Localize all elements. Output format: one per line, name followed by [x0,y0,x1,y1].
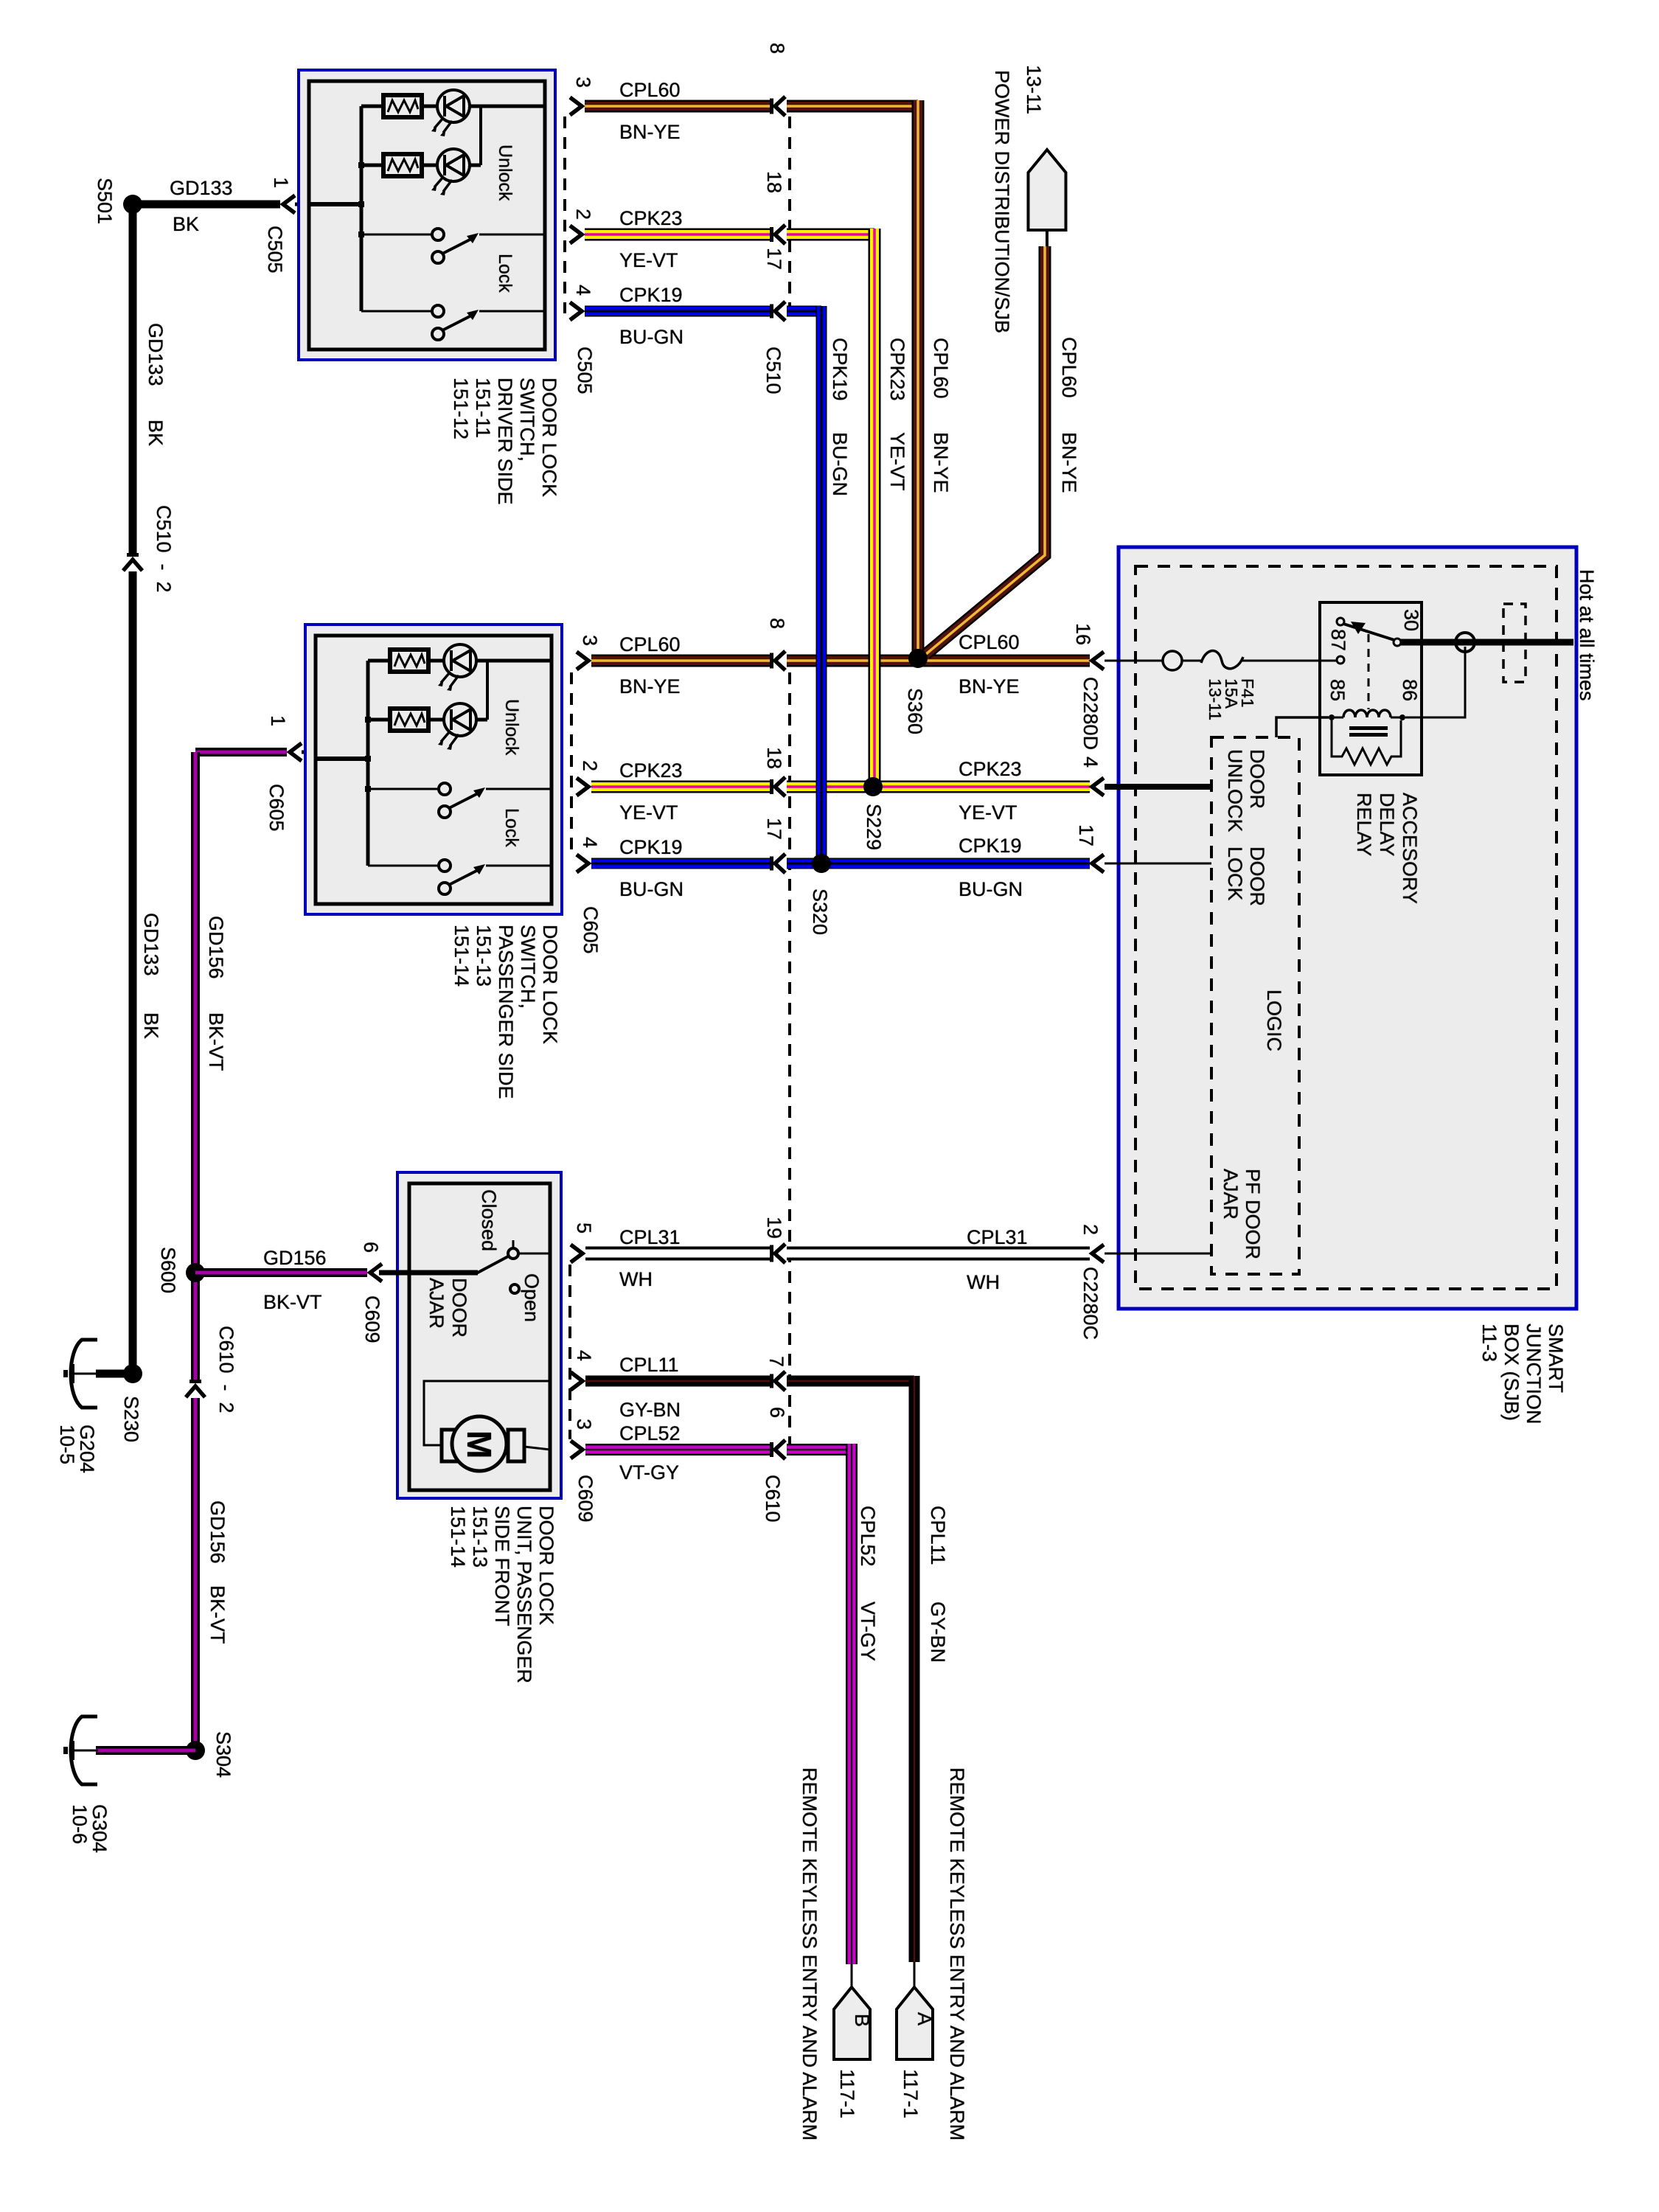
svg-text:CPL52: CPL52 [619,1422,681,1444]
svg-text:CPL31: CPL31 [967,1226,1028,1248]
svg-text:C610 - 2: C610 - 2 [215,1326,237,1413]
in-line connector C610-2 on GD156 [186,1326,237,1413]
label SMART JUNCTION BOX (SJB) 11-3 [1478,1324,1567,1425]
door lock switch passenger side: box enclosure [305,625,562,914]
pin 1 arrow (driver switch) [283,195,295,213]
svg-text:S320: S320 [809,888,831,935]
door lock switch driver side: lock switch [361,305,545,340]
in-line connector pin 18 (driver C510) [763,171,785,244]
svg-text:DOORAJAR: DOORAJAR [425,1278,470,1338]
svg-text:BN-YE: BN-YE [930,432,952,493]
wire GD156 BK-VT vertical (pin1 to S304) [191,752,200,1750]
connector C605 dashed line (passenger switch) [571,672,602,954]
relay coil [1329,710,1405,737]
label GD156 BK-VT (upper vertical) [205,916,227,1071]
connector C609 dashed line (door lock unit) [570,1265,597,1523]
wire GD133 BK vertical (S501 to S230) [129,204,137,1374]
svg-text:BK-VT: BK-VT [205,1012,227,1071]
svg-text:30: 30 [1400,609,1422,631]
svg-text:C510 - 2: C510 - 2 [153,505,175,593]
wire CPL52 VT-GY vertical drop [846,1444,858,1964]
svg-text:Unlock: Unlock [495,145,515,201]
door ajar switch (closed/open) [379,1240,550,1293]
connector B 117-1 (remote keyless entry and alarm) [834,1964,873,2118]
relay switch contacts 30/87 [1337,618,1401,664]
in-line connector pin 6 (C610) [766,1407,788,1459]
svg-text:POWER DISTRIBUTION/SJB: POWER DISTRIBUTION/SJB [991,70,1013,333]
svg-text:CPL11: CPL11 [619,1354,679,1376]
label GD156 BK-VT (lower vertical) [206,1500,229,1644]
svg-text:CPK23: CPK23 [619,759,683,782]
svg-text:GD156: GD156 [205,916,227,979]
svg-text:CPK19: CPK19 [619,284,683,306]
motor M (door lock unit) [442,1416,524,1471]
labels along vertical wires CPK19 CPK23 CPL60 [829,338,952,496]
svg-text:1: 1 [267,715,289,726]
pin 3 arrow + label (passenger switch) [577,635,601,669]
svg-text:CPL60: CPL60 [619,633,681,655]
svg-text:18: 18 [763,747,785,769]
svg-text:BK: BK [140,1012,162,1039]
svg-text:Open: Open [521,1273,543,1322]
SJB pin 17 arrow (door lock feed) [1075,824,1104,872]
wire GD133 BK from S501 to driver door lock switch pin 1 [133,201,361,209]
svg-text:VT-GY: VT-GY [619,1461,679,1484]
label CPL52 VT-GY (row) [619,1422,681,1484]
label CPK23 YE-VT (passenger row left) [619,759,683,824]
door lock switch passenger side: Unlock / Lock labels [501,699,522,847]
svg-text:CPL60: CPL60 [1058,337,1080,398]
junction S229 [863,777,885,850]
pin 4 arrow + label (door lock unit) [571,1350,595,1390]
label REMOTE KEYLESS ENTRY AND ALARM (A) [946,1767,968,2140]
svg-text:C505: C505 [574,347,596,394]
svg-text:C2280D: C2280D [1079,677,1102,750]
door lock switch passenger side: resistor 2 [390,709,428,731]
svg-text:BU-GN: BU-GN [829,432,851,496]
label G304 10-6 [69,1804,111,1853]
labels Closed / Open / DOOR AJAR [425,1189,543,1338]
label pin 1 and C605 (passenger pin1) [265,715,289,832]
label CPK19 BU-GN (row right of S320) [959,835,1023,900]
SJB pin 4 arrow (door unlock feed) [1079,757,1104,796]
label GD133 BK (lower vertical) [140,913,162,1039]
in-line connector pin 8 (passenger C610) [766,618,788,670]
svg-text:S304: S304 [212,1731,234,1778]
svg-text:REMOTE KEYLESS ENTRY AND ALARM: REMOTE KEYLESS ENTRY AND ALARM [799,1767,821,2140]
junction S600 [157,1247,205,1293]
wire relay 85 to logic [1276,717,1329,737]
svg-text:GD156: GD156 [206,1500,229,1564]
svg-text:C505: C505 [264,226,286,274]
svg-text:19: 19 [763,1217,785,1239]
smart junction box (SJB) enclosure [1119,547,1576,1309]
svg-text:YE-VT: YE-VT [619,249,678,271]
svg-text:BU-GN: BU-GN [619,878,684,900]
pin 3 arrow + label (driver switch) [570,77,594,115]
door lock switch driver side: resistor 1 [383,95,422,117]
label CPK23 YE-VT (driver row) [619,207,683,271]
svg-text:CPL60: CPL60 [959,631,1020,653]
svg-text:4: 4 [579,837,601,848]
in-line connector pin 8 (driver C510) [766,43,788,116]
svg-text:8: 8 [766,43,788,54]
labels along vertical CPL52 / CPL11 [857,1506,949,1663]
svg-text:Closed: Closed [478,1189,500,1251]
svg-text:GD133: GD133 [140,913,162,976]
label F41 15A 13-11 [1206,678,1257,720]
svg-text:S600: S600 [157,1247,179,1293]
wire stub S304 to ground [96,1746,195,1755]
svg-text:YE-VT: YE-VT [959,801,1018,824]
svg-text:117-1: 117-1 [836,2069,858,2118]
svg-text:18: 18 [763,171,785,193]
wire CPL60 BN-YE passenger run (pin3 to S360 to SJB pin16) [591,655,1090,667]
svg-text:BN-YE: BN-YE [1058,432,1080,493]
pin 2 arrow + label (passenger switch) [577,760,601,796]
relay dashed actuator line [1368,634,1370,709]
SJB internal fusible link (dashed rect) [1503,604,1526,682]
label pin 1 and C505 (driver switch pin1) [264,177,292,274]
svg-text:C605: C605 [580,906,602,954]
connector A 117-1 (remote keyless entry and alarm) [897,1962,936,2118]
svg-text:GY-BN: GY-BN [619,1399,681,1421]
SJB pin 2 arrow + labels (C2280C) [1079,1224,1104,1340]
fuse F41 15A circle + element [1105,651,1337,670]
svg-text:85: 85 [1326,679,1349,701]
wire GD156 BK-VT from S600 to door lock unit pin 6 [195,1268,367,1277]
svg-text:WH: WH [619,1268,653,1290]
connector C505 dashed line (driver switch) [565,116,596,394]
svg-text:C610: C610 [762,1475,784,1523]
svg-text:C609: C609 [574,1475,597,1523]
svg-text:BU-GN: BU-GN [959,878,1023,900]
svg-text:CPK23: CPK23 [886,338,908,401]
wire CPL11 GY-BN (unit pin4 to corner to connector A) [585,1376,914,1387]
svg-text:6: 6 [766,1407,788,1418]
svg-text:2: 2 [579,760,601,771]
label CPL60 BN-YE (driver row) [619,79,681,143]
accessory delay relay box [1320,602,1422,775]
svg-text:GD133: GD133 [170,177,233,199]
svg-text:117-1: 117-1 [900,2069,922,2118]
svg-text:S501: S501 [94,178,116,224]
wire CPL60 BN-YE driver run (pin3 to corner) [585,100,918,113]
label CPK19 BU-GN (driver row) [619,284,684,348]
label ACCESORY DELAY RELAY [1353,793,1421,904]
svg-text:CPL60: CPL60 [930,338,952,399]
junction S304 [186,1731,234,1778]
label REMOTE KEYLESS ENTRY AND ALARM (B) [799,1767,821,2140]
svg-text:Hot at all times: Hot at all times [1576,569,1598,701]
svg-text:Unlock: Unlock [501,699,522,756]
pin 2 arrow + label (driver switch) [570,209,594,243]
label CPL60 BN-YE (power distribution drop) [1058,337,1080,493]
svg-text:BK-VT: BK-VT [206,1585,229,1644]
wire CPK23 YE-VT vertical (driver to S229) [869,229,881,783]
door lock unit passenger side front: box enclosure [397,1172,561,1498]
svg-text:17: 17 [763,818,785,840]
wire CPL60 BN-YE from power distribution down and diagonal to S360 [926,246,1045,654]
pin 1 arrow (passenger switch) [290,743,302,761]
svg-text:CPL31: CPL31 [619,1226,681,1248]
pin 6 arrow (door lock unit) [370,1264,382,1281]
door lock switch passenger side: LED indicator 2 [438,703,476,750]
label 13-11 POWER DISTRIBUTION/SJB [991,65,1045,333]
label CPK19 BU-GN (passenger row left) [619,836,684,900]
wire CPK19 BU-GN driver run (pin4 to corner) [585,306,821,317]
label CPL60 BN-YE (row right of S360) [959,631,1020,698]
relay pin labels 30 87 85 86 [1326,609,1422,701]
svg-text:C510: C510 [762,347,785,394]
svg-text:8: 8 [766,618,788,629]
junction S320 [809,854,831,935]
door lock switch passenger side: lock switch [368,860,552,894]
svg-text:CPK19: CPK19 [829,338,851,401]
svg-text:4: 4 [572,285,594,296]
SJB pin 16 arrow + labels (C2280D) [1072,623,1104,750]
svg-text:WH: WH [967,1271,1000,1293]
svg-text:6: 6 [360,1242,382,1253]
door lock switch driver side: unlock switch [361,229,545,263]
wire CPL11 GY-BN vertical drop [909,1376,920,1962]
svg-text:LOGIC: LOGIC [1263,990,1285,1051]
door lock switch passenger side: unlock switch [368,783,552,818]
relay resistor (zigzag) [1332,720,1401,765]
svg-text:BN-YE: BN-YE [619,121,681,143]
svg-text:C2280C: C2280C [1079,1267,1102,1340]
SJB outer dashed boundary [1135,566,1557,1289]
in-line connector pin 19 (C610) [763,1217,785,1263]
connector POWER DISTRIBUTION/SJB 13-11 (pentagon) [1029,150,1066,248]
door lock switch passenger side: internal wires [316,661,552,866]
label DOOR LOCK SWITCH PASSENGER SIDE [451,925,561,1099]
svg-text:3: 3 [579,635,601,646]
junction S501 [94,178,142,224]
junction S230 [120,1364,142,1442]
svg-text:CPL52: CPL52 [857,1506,879,1567]
junction S360 [904,649,928,734]
in-line connector pin 17 (passenger C610) [763,818,785,873]
svg-text:CPK23: CPK23 [619,207,683,229]
svg-text:86: 86 [1399,679,1421,701]
connector C510 dashed line (driver rows) [762,116,790,394]
svg-text:Lock: Lock [501,808,522,847]
svg-text:YE-VT: YE-VT [886,432,908,491]
door lock switch driver side: LED indicator 1 [431,90,470,136]
label CPK23 YE-VT (row right of S229) [959,758,1022,824]
svg-text:BK: BK [145,420,167,446]
label CPL11 GY-BN (row) [619,1354,681,1421]
svg-text:BN-YE: BN-YE [959,675,1020,698]
SJB logic dashed box [1211,737,1299,1274]
label CPL31 WH (right) [967,1226,1028,1293]
in-line connector C510-2 on GD133 [123,505,175,593]
svg-text:M: M [460,1430,498,1458]
door lock switch driver side: box enclosure [299,70,555,360]
svg-text:DOORLOCK: DOORLOCK [1224,846,1268,906]
svg-text:CPL60: CPL60 [619,79,681,101]
svg-text:CPK19: CPK19 [959,835,1022,857]
svg-text:1: 1 [270,177,292,188]
svg-text:2: 2 [1079,1224,1102,1235]
pin 4 arrow + label (passenger switch) [577,837,601,872]
svg-text:4: 4 [1079,757,1102,768]
door lock switch driver side: LED indicator 2 [431,149,470,195]
hot at all times bus (thick) + junction ring [1401,633,1573,652]
svg-text:5: 5 [573,1222,595,1234]
svg-text:16: 16 [1072,623,1094,645]
label pin 6 and C609 (unit pin6) [360,1242,383,1343]
wire CPL31 WH (unit pin5 to SJB pin2) [585,1247,1090,1261]
svg-text:BU-GN: BU-GN [619,326,684,348]
wire stub S230 to ground [96,1370,133,1378]
svg-text:REMOTE KEYLESS ENTRY AND ALARM: REMOTE KEYLESS ENTRY AND ALARM [946,1767,968,2140]
svg-text:2: 2 [572,209,594,220]
wire CPK19 BU-GN passenger run (pin4 to S320 to SJB pin17) [591,858,1090,869]
svg-text:Lock: Lock [495,254,515,293]
svg-text:3: 3 [572,77,594,88]
svg-text:3: 3 [573,1419,595,1430]
door lock switch driver side: resistor 2 [383,154,422,176]
svg-text:17: 17 [1075,824,1097,846]
label G204 10-5 [56,1425,98,1473]
svg-text:CPK23: CPK23 [959,758,1022,780]
label DOOR LOCK SWITCH DRIVER SIDE [450,378,560,505]
svg-text:C605: C605 [265,784,288,832]
pin 4 arrow + label (driver switch) [570,285,594,320]
svg-text:CPK19: CPK19 [619,836,683,858]
svg-text:7: 7 [765,1356,787,1367]
connector C610 dashed line (passenger + unit rows) [762,672,790,1523]
wire CPK19 BU-GN vertical (driver to S320) [816,306,827,859]
svg-text:S360: S360 [904,688,926,734]
svg-text:B: B [851,2014,873,2027]
motor internal wires [424,1381,550,1450]
ground G304 symbol [63,1717,98,1784]
door lock switch passenger side: resistor 1 [390,650,428,672]
svg-text:BN-YE: BN-YE [619,675,681,698]
svg-text:4: 4 [573,1350,595,1361]
wire CPK23 YE-VT passenger run (pin2 to S229 to SJB pin4) [591,781,1090,793]
label Hot at all times [1576,569,1598,701]
svg-text:13-11: 13-11 [1023,65,1045,114]
wire relay 86 to hot bus [1405,647,1465,717]
svg-text:A: A [914,2012,936,2025]
svg-text:BK-VT: BK-VT [263,1291,322,1313]
label DOOR LOCK UNIT PASSENGER SIDE FRONT [447,1506,557,1683]
svg-text:S229: S229 [863,804,885,850]
pin 3 arrow + label (door lock unit) [571,1419,595,1458]
label CPL60 BN-YE (passenger row left) [619,633,681,698]
label CPL31 WH (left) [619,1226,681,1290]
svg-text:GY-BN: GY-BN [927,1601,949,1663]
svg-text:CPL11: CPL11 [927,1506,949,1565]
svg-text:87: 87 [1327,629,1349,651]
svg-text:C609: C609 [361,1295,383,1343]
labels DOOR UNLOCK / DOOR LOCK / LOGIC / PF DOOR AJAR [1220,749,1285,1259]
label GD133 BK (S501 row) [170,177,233,235]
svg-text:GD133: GD133 [145,323,167,386]
wire door lock feed [1105,863,1211,865]
label GD156 BK-VT (S600 row) [263,1247,327,1313]
svg-text:GD156: GD156 [263,1247,327,1269]
label GD133 BK (upper vertical) [145,323,167,446]
in-line connector pin 7 (C610) [765,1356,787,1391]
svg-text:17: 17 [763,248,785,270]
svg-text:VT-GY: VT-GY [857,1601,879,1661]
svg-text:S230: S230 [120,1396,142,1442]
ground G204 symbol [63,1340,98,1408]
door lock switch driver side: internal wires [309,106,545,311]
svg-text:BK: BK [173,213,199,235]
wire GD156 BK-VT from vertical to passenger switch pin 1 [195,748,369,757]
wire CPK23 YE-VT driver run (pin2 to corner) [585,229,874,241]
door lock switch driver side: Unlock / Lock labels [495,145,515,293]
wire door unlock feed (thick) [1105,784,1211,790]
in-line connector pin 17 (driver C510) [763,248,785,321]
pin 5 arrow + label (door lock unit) [571,1222,595,1262]
wire PF door ajar feed [1105,1253,1211,1255]
in-line connector pin 18 (passenger C610) [763,747,785,796]
wire CPL60 BN-YE vertical (driver to S360) [912,100,925,655]
wire CPL52 VT-GY (unit pin3 to corner to connector B) [585,1444,852,1455]
svg-text:YE-VT: YE-VT [619,801,678,824]
door lock switch passenger side: LED indicator 1 [438,644,476,691]
